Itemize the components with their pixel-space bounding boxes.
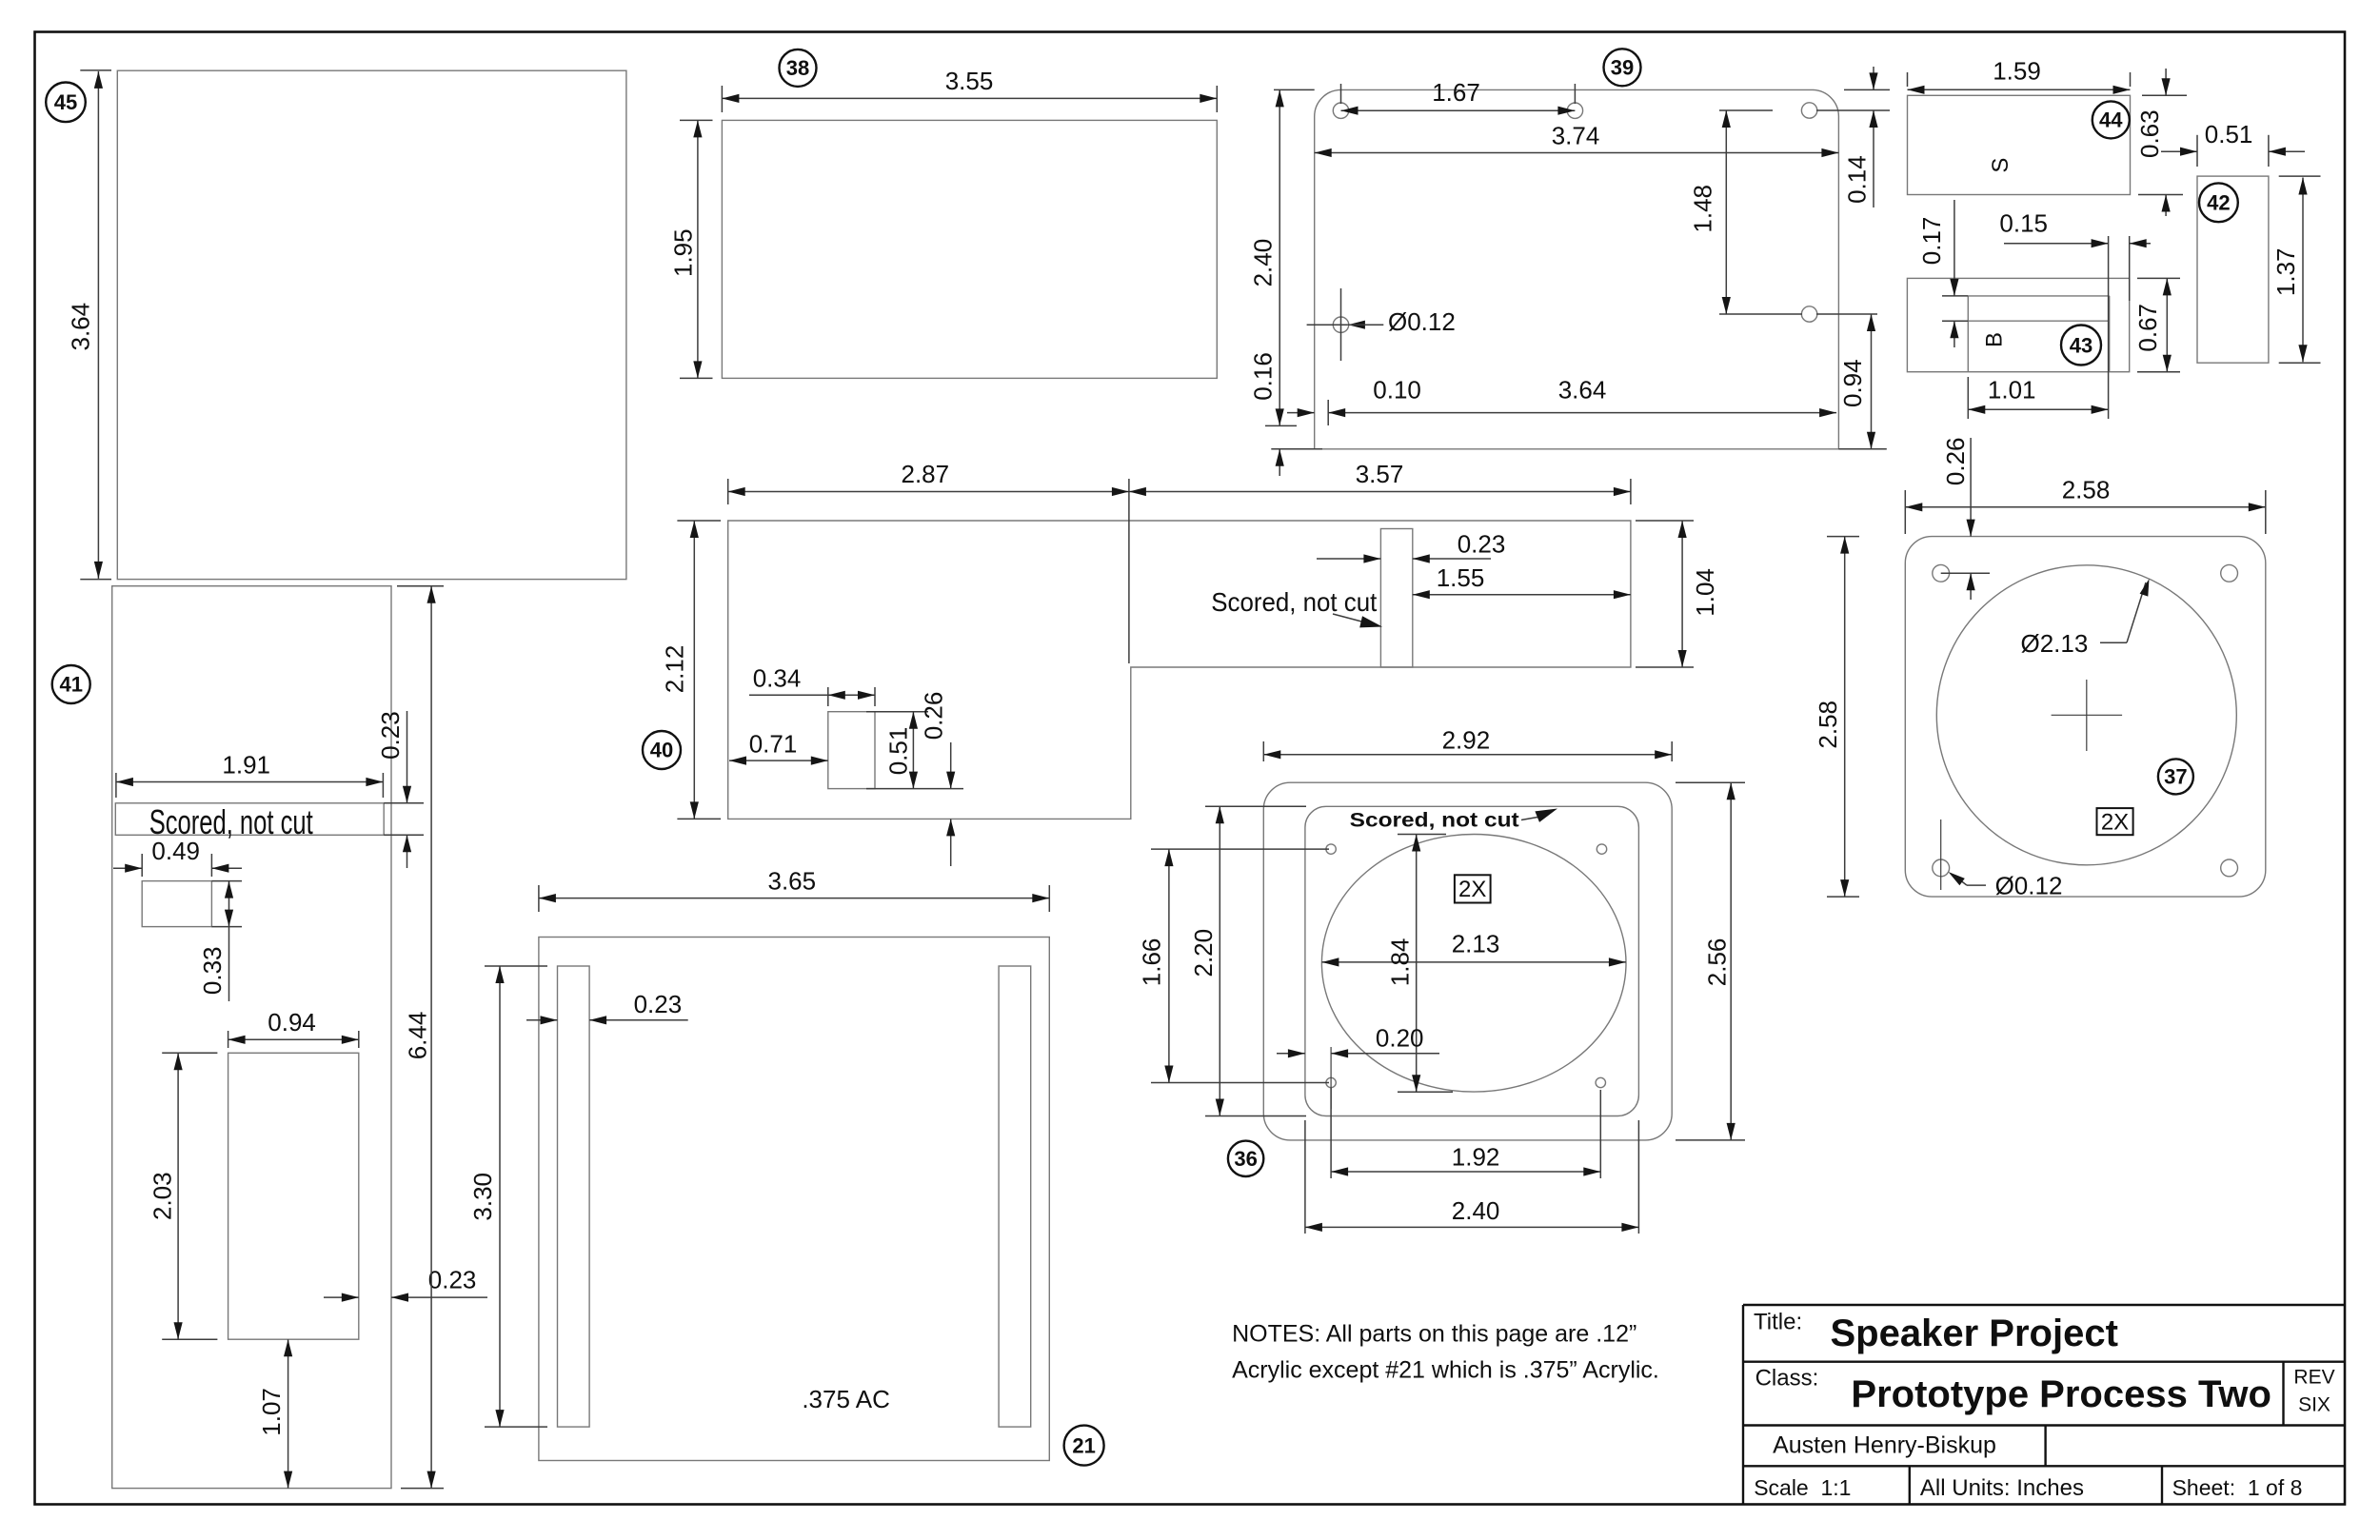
dim 2.40 (scored rect width) (1304, 1120, 1306, 1234)
svg-text:39: 39 (1611, 55, 1634, 79)
part 44 outline (S spacer) (1908, 95, 2131, 194)
svg-text:3.30: 3.30 (468, 1173, 497, 1221)
svg-text:2.20: 2.20 (1189, 929, 1218, 977)
svg-text:3.65: 3.65 (767, 867, 816, 896)
svg-text:37: 37 (2164, 764, 2187, 788)
leader and label dia 0.12 (part 39 hole) (1307, 324, 1348, 326)
balloon label 40 (643, 731, 681, 769)
svg-text:1.48: 1.48 (1688, 185, 1716, 233)
svg-text:21: 21 (1072, 1434, 1095, 1458)
svg-text:2.13: 2.13 (1452, 929, 1500, 958)
svg-text:0.49: 0.49 (151, 837, 200, 865)
svg-text:Ø0.12: Ø0.12 (1995, 872, 2063, 900)
svg-text:2X: 2X (2101, 810, 2129, 836)
balloon label 44 (2092, 101, 2130, 138)
svg-text:44: 44 (2099, 108, 2123, 131)
dim 6.44 (part 41 overall height) (397, 585, 444, 587)
balloon label 37 (2158, 759, 2193, 794)
svg-text:1.91: 1.91 (222, 750, 270, 779)
dim 0.63 (part 44 height) (2142, 94, 2187, 96)
svg-text:2X: 2X (1458, 877, 1486, 902)
svg-text:3.64: 3.64 (1558, 375, 1607, 404)
dim 1.92 (hole spacing horizontal) (1330, 1088, 1332, 1178)
hole top-left (part 36) (1326, 844, 1336, 854)
corner hole bottom-right (part 37) (2221, 859, 2238, 877)
svg-text:Scored, not cut: Scored, not cut (1350, 809, 1519, 832)
svg-text:0.71: 0.71 (749, 730, 798, 759)
svg-text:0.51: 0.51 (883, 727, 912, 776)
svg-text:1.04: 1.04 (1691, 568, 1719, 617)
dim 0.16 (lower portion height) (1265, 424, 1297, 426)
dim 1.95 (part 38 height) (680, 119, 713, 121)
svg-text:Austen Henry-Biskup: Austen Henry-Biskup (1773, 1431, 1996, 1458)
hole top-right of part 39 (1801, 103, 1816, 118)
dim 1.07 (cutout to bottom edge) (288, 1339, 289, 1488)
svg-text:3.55: 3.55 (945, 67, 994, 95)
balloon label 45 (46, 83, 86, 123)
dim 2.03 (cutout height) (162, 1052, 217, 1054)
svg-text:Ø2.13: Ø2.13 (2020, 629, 2088, 658)
dim 1.01 (part 43 inner width) (1967, 377, 1969, 419)
svg-text:2.58: 2.58 (2062, 476, 2111, 504)
balloon label 36 (1228, 1141, 1263, 1176)
dim 3.55 (part 38 width) (721, 86, 723, 112)
hole top-right (part 36) (1597, 844, 1606, 854)
svg-text:Scale 1:1: Scale 1:1 (1754, 1475, 1851, 1500)
svg-text:0.23: 0.23 (634, 990, 683, 1018)
corner hole top-left (part 37) (1933, 564, 1950, 582)
dim 0.23 (slot width) (526, 1019, 558, 1021)
svg-text:1.07: 1.07 (257, 1388, 286, 1436)
center line through bottom-left hole (part 37) (1940, 819, 1942, 890)
2X quantity box (part 36) (1455, 875, 1491, 902)
svg-text:38: 38 (786, 56, 809, 80)
dim 0.10 and 3.64 (bottom chain dims of part 39) (1327, 400, 1329, 425)
dim 0.23 (scored strip height) (384, 802, 424, 804)
svg-text:Acrylic except #21 which is .3: Acrylic except #21 which is .375” Acryli… (1232, 1357, 1659, 1384)
balloon label 39 (1604, 49, 1641, 86)
left slot in part 21 (558, 966, 590, 1427)
dim 3.64 (part 45 height) (80, 69, 111, 71)
dim 0.67 (part 43 height) (2137, 277, 2180, 279)
svg-text:REV: REV (2293, 1367, 2334, 1389)
dim 1.48 (hole to hole vertical) (1719, 109, 1773, 111)
dim 2.12 (part 40 height) (677, 520, 721, 522)
part 39 outline (rounded top corners plate) (1315, 89, 1839, 448)
svg-text:1.84: 1.84 (1386, 938, 1415, 987)
dim 0.26 (top edge to corner hole) (1941, 572, 1990, 574)
dim 0.23 (slot width) (1317, 558, 1380, 560)
dim 1.59 (part 44 width) (1907, 72, 1909, 87)
scored slot in part 40 (1380, 529, 1412, 668)
hole top-middle of part 39 (1567, 103, 1582, 118)
svg-text:0.26: 0.26 (1941, 437, 1970, 485)
dim 1.55 (slot to right edge) (1413, 594, 1631, 596)
scored line strip on part 41 (115, 803, 384, 836)
dim 1.91 (scored strip width) (115, 773, 117, 798)
svg-text:S: S (1988, 158, 2013, 173)
svg-text:1.55: 1.55 (1437, 563, 1485, 592)
svg-text:0.33: 0.33 (198, 946, 227, 995)
svg-text:0.23: 0.23 (1458, 530, 1506, 559)
dim 0.17 (part 43 step offset) (1942, 295, 1968, 297)
hole bottom-right (part 36) (1596, 1077, 1605, 1087)
svg-text:36: 36 (1234, 1147, 1257, 1171)
dim 0.51 (part 42 width) (2196, 135, 2198, 167)
svg-text:0.10: 0.10 (1373, 375, 1421, 404)
dim 3.57 (part 40 right section width) (1630, 479, 1632, 504)
svg-text:2.87: 2.87 (901, 460, 949, 488)
svg-text:Sheet: 1 of 8: Sheet: 1 of 8 (2172, 1475, 2303, 1500)
svg-text:6.44: 6.44 (403, 1012, 431, 1060)
svg-text:2.58: 2.58 (1814, 701, 1842, 749)
svg-text:1.37: 1.37 (2271, 247, 2300, 296)
corner hole bottom-left (part 37) (1933, 859, 1950, 877)
dim 2.92 (part 36 outer width) (1262, 741, 1264, 761)
dim 0.20 (scored rect to hole) (1330, 1047, 1332, 1109)
svg-text:B: B (1981, 332, 2007, 347)
svg-text:0.34: 0.34 (753, 664, 802, 693)
svg-text:45: 45 (54, 90, 77, 114)
svg-text:0.67: 0.67 (2133, 304, 2162, 352)
title block grid (1743, 1304, 2345, 1306)
svg-text:0.20: 0.20 (1376, 1024, 1424, 1053)
svg-text:0.14: 0.14 (1842, 155, 1871, 204)
dim 2.58 (part 37 height) (1827, 536, 1859, 538)
svg-text:0.26: 0.26 (919, 692, 947, 740)
svg-text:2.56: 2.56 (1703, 938, 1732, 987)
svg-text:0.15: 0.15 (1999, 209, 2048, 238)
dim 1.84 (ellipse minor axis) (1398, 834, 1446, 836)
svg-text:0.17: 0.17 (1917, 217, 1946, 266)
dim 2.87 (part 40 left section width) (727, 479, 729, 504)
balloon label 43 (2061, 326, 2101, 365)
small notch rectangle in part 40 (828, 712, 875, 789)
dim 0.94 (lower hole to bottom edge) (1838, 448, 1886, 450)
speaker hole circle dia 2.13 (part 37) (1936, 565, 2236, 865)
dim 0.33 (small cutout height) (211, 880, 242, 882)
dim 3.65 (part 21 width) (538, 885, 540, 912)
dim 2.13 (ellipse major axis) (1321, 961, 1626, 963)
svg-text:3.57: 3.57 (1356, 460, 1404, 488)
dim 0.94 (cutout width) (228, 1031, 229, 1048)
part 45 outline (3.64 square plate) (117, 70, 626, 579)
svg-text:2.03: 2.03 (149, 1172, 177, 1220)
part 42 outline (narrow spacer) (2197, 176, 2269, 363)
part 21 outline (thick acrylic square) (539, 938, 1049, 1461)
svg-text:Scored, not cut: Scored, not cut (1211, 587, 1377, 617)
dim 0.34 (notch width) (827, 687, 829, 706)
corner hole top-right (part 37) (2221, 564, 2238, 582)
scored inner rounded rectangle (part 36) (1305, 806, 1639, 1116)
center cross mark (part 37) (2052, 714, 2123, 716)
svg-text:3.74: 3.74 (1552, 122, 1600, 150)
hole bottom-left (part 36) (1326, 1077, 1336, 1087)
dim 3.74 (part 39 width at holes) (1315, 152, 1839, 154)
balloon label 21 (1064, 1426, 1104, 1466)
svg-text:0.51: 0.51 (2205, 120, 2253, 148)
dim 0.15 (part 43 step to edge) (2108, 236, 2110, 419)
part 36 outline (rounded speaker frame) (1263, 782, 1672, 1140)
dim 1.04 (right section height) (1636, 520, 1694, 522)
svg-text:1.92: 1.92 (1452, 1142, 1500, 1171)
dim 2.40 (part 39 height to lower hole) (1274, 89, 1315, 90)
svg-text:43: 43 (2070, 334, 2092, 358)
part 40 outline (stepped bracket plate) (728, 521, 1631, 819)
small rectangular cutout 0.49 x 0.33 in part 41 (142, 881, 211, 927)
svg-text:42: 42 (2207, 191, 2230, 215)
dim 1.67 (hole spacing) (1340, 84, 1342, 104)
elliptical speaker opening (part 36) (1321, 835, 1626, 1093)
svg-text:1.67: 1.67 (1432, 78, 1480, 107)
dim 0.49 (small cutout width) (141, 854, 143, 877)
svg-text:Title:: Title: (1754, 1310, 1802, 1335)
svg-text:1.01: 1.01 (1988, 375, 2036, 404)
svg-text:Scored, not cut: Scored, not cut (149, 802, 313, 841)
dim 0.14 (top edge to hole) (1844, 89, 1890, 90)
dim 0.71 (notch offset from left) (729, 760, 828, 761)
dim 0.23 (cutout to right edge of part 41) (324, 1296, 359, 1298)
dim 2.58 (part 37 width) (1904, 490, 1906, 534)
svg-text:Prototype Process Two: Prototype Process Two (1851, 1373, 2271, 1415)
svg-text:3.64: 3.64 (67, 303, 95, 351)
dim 2.20 (scored rect height) (1205, 805, 1306, 807)
rectangular cutout 0.94 x 2.03 in part 41 (228, 1053, 359, 1339)
svg-text:41: 41 (59, 673, 82, 697)
svg-text:0.94: 0.94 (268, 1008, 316, 1037)
balloon label 42 (2199, 183, 2238, 222)
2X quantity box (part 37) (2097, 808, 2133, 835)
dim 3.30 (slot height) (485, 965, 547, 967)
svg-text:0.63: 0.63 (2135, 109, 2164, 158)
part 43 inner step lines (1968, 295, 2109, 297)
svg-text:0.23: 0.23 (428, 1266, 477, 1294)
svg-text:2.12: 2.12 (660, 645, 688, 694)
dim 0.51 (notch height) (866, 711, 928, 713)
svg-text:1.66: 1.66 (1138, 938, 1166, 987)
svg-text:.375 AC: .375 AC (802, 1385, 890, 1413)
hole top-left of part 39 (1333, 103, 1348, 118)
dim 1.37 (part 42 height) (2279, 175, 2321, 177)
svg-text:1.95: 1.95 (668, 228, 697, 277)
svg-text:Class:: Class: (1755, 1366, 1819, 1392)
svg-text:0.16: 0.16 (1248, 352, 1277, 401)
part 38 outline (3.55 x 1.95 plate) (722, 120, 1217, 378)
svg-text:40: 40 (650, 739, 673, 762)
svg-text:Ø0.12: Ø0.12 (1388, 307, 1456, 336)
svg-text:SIX: SIX (2298, 1394, 2330, 1416)
svg-text:0.94: 0.94 (1838, 359, 1867, 407)
hole lower-right of part 39 (1801, 306, 1816, 322)
balloon label 38 (780, 49, 817, 87)
svg-text:NOTES: All parts on this page: NOTES: All parts on this page are .12” (1232, 1321, 1636, 1348)
svg-text:1.59: 1.59 (1993, 56, 2041, 85)
svg-text:2.40: 2.40 (1452, 1196, 1500, 1225)
dim 0.26 (notch to bottom edge) (950, 742, 952, 789)
dim 2.56 (part 36 outer height) (1676, 781, 1745, 783)
svg-text:All Units: Inches: All Units: Inches (1920, 1475, 2084, 1501)
part 41 outline (tall plate) (112, 586, 391, 1489)
part 43 outline (B spacer) (1907, 278, 2129, 371)
hole lower-left of part 39 (1333, 317, 1348, 332)
svg-text:Speaker Project: Speaker Project (1831, 1313, 2118, 1354)
dim 1.66 (hole spacing vertical) (1151, 848, 1329, 850)
svg-text:2.92: 2.92 (1442, 726, 1491, 755)
balloon label 41 (52, 665, 90, 703)
right slot in part 21 (999, 966, 1031, 1427)
part 37 outline (rounded square speaker plate) (1905, 537, 2266, 898)
svg-text:2.40: 2.40 (1248, 239, 1277, 287)
svg-text:0.23: 0.23 (376, 711, 405, 760)
